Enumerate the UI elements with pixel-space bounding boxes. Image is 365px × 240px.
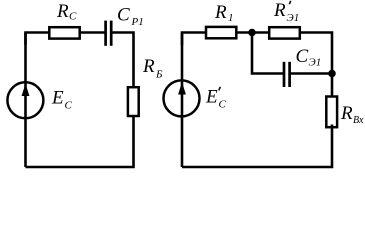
label R_B — [142, 56, 163, 81]
resistor RC — [49, 27, 79, 38]
svg-text:С: С — [65, 100, 73, 112]
svg-text:R: R — [340, 103, 353, 124]
wire: node A down to parallel branch — [252, 33, 283, 74]
svg-text:Б: Б — [155, 69, 163, 81]
svg-text:R: R — [273, 0, 286, 21]
wire: right circuit left side vertical — [181, 33, 184, 168]
svg-text:E: E — [51, 88, 64, 109]
node A (junction dot after R1) — [248, 29, 256, 37]
label R_Bx — [340, 103, 364, 126]
label R_C — [56, 1, 77, 23]
label C_E1 — [296, 46, 322, 69]
label C_P1 — [117, 5, 144, 28]
label R_1 — [214, 2, 234, 24]
wire: RBx down to bottom corner and bottom wire — [182, 125, 332, 168]
svg-text:R: R — [142, 56, 155, 77]
wire: R1 to node A — [238, 31, 269, 34]
label E_C — [51, 88, 73, 112]
svg-text:Р1: Р1 — [131, 16, 144, 28]
svg-text:С: С — [69, 11, 77, 23]
svg-text:R: R — [214, 2, 227, 23]
svg-text:C: C — [296, 46, 309, 67]
svg-text:E: E — [205, 87, 218, 108]
wire: capacitor to node B — [291, 72, 332, 75]
node B (junction dot on right wire) — [328, 70, 336, 78]
svg-text:С: С — [219, 99, 227, 111]
svg-text:C: C — [117, 5, 130, 26]
source E'C (circle with arrow) — [164, 80, 200, 116]
resistor R1 — [206, 27, 236, 38]
wire: capacitor to right top corner, down to RB — [112, 33, 133, 87]
wire: left side vertical — [24, 33, 27, 168]
svg-text:Э1: Э1 — [309, 57, 322, 69]
svg-text:Вх: Вх — [353, 115, 364, 126]
wire: RB down to bottom corner and bottom wire — [26, 116, 134, 168]
capacitor CP1 — [106, 21, 112, 46]
resistor RBx (vertical) — [326, 97, 337, 128]
label R'_E1 — [273, 0, 286, 21]
wire: Rc to capacitor — [81, 31, 105, 34]
label E'_C — [205, 87, 218, 108]
wire: right circuit top-left (corner to R1) — [182, 33, 205, 46]
svg-text:Э1: Э1 — [287, 12, 300, 24]
resistor R'E1 — [269, 27, 300, 38]
source EC (circle with arrow) — [7, 82, 43, 118]
wire: R'E1 to top right corner, down right side to RBx — [301, 33, 333, 96]
resistor RB (vertical) — [128, 87, 139, 116]
svg-text:1: 1 — [228, 12, 234, 24]
capacitor CE1 — [284, 62, 290, 87]
svg-text:R: R — [56, 1, 69, 22]
wire: left circuit top (corner to Rc) — [26, 33, 49, 46]
